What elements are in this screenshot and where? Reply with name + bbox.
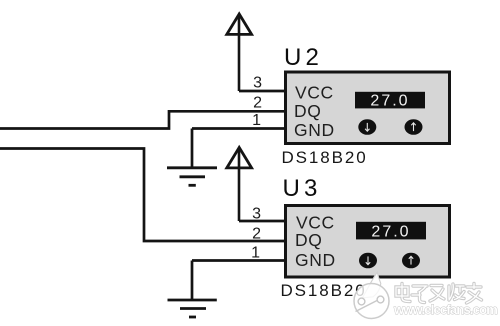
svg-text:U2: U2 <box>284 44 323 71</box>
svg-text:27.0: 27.0 <box>371 224 410 241</box>
svg-text:1: 1 <box>252 112 261 129</box>
svg-text:27.0: 27.0 <box>370 92 409 109</box>
svg-text:2: 2 <box>253 95 262 112</box>
svg-text:2: 2 <box>252 226 261 243</box>
svg-text:DQ: DQ <box>294 101 321 121</box>
svg-text:DQ: DQ <box>295 230 322 250</box>
svg-text:DS18B20: DS18B20 <box>282 148 368 167</box>
svg-text:U3: U3 <box>283 175 322 202</box>
svg-text:www.elecfans.com: www.elecfans.com <box>393 302 497 317</box>
svg-text:VCC: VCC <box>295 83 334 103</box>
svg-text:1: 1 <box>251 245 260 262</box>
svg-text:GND: GND <box>295 250 336 270</box>
svg-text:3: 3 <box>252 206 261 223</box>
svg-text:3: 3 <box>253 75 262 92</box>
svg-text:GND: GND <box>294 120 335 140</box>
